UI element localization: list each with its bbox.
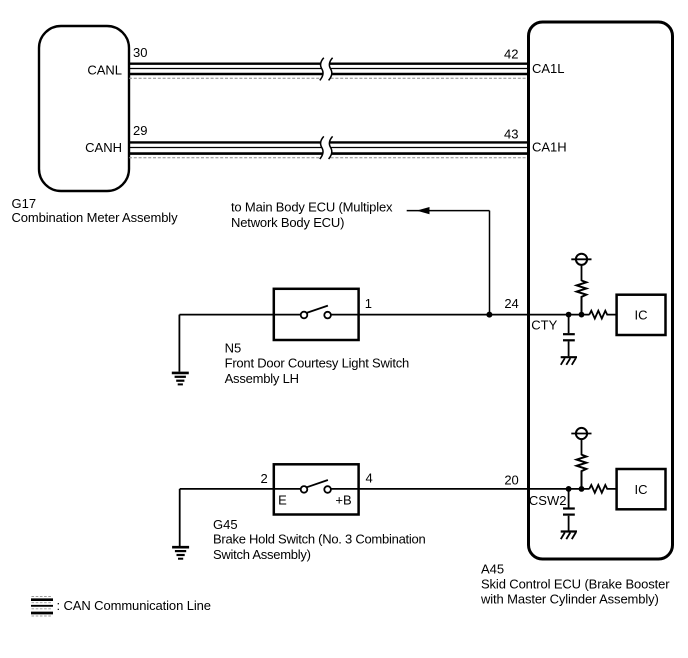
svg-text:42: 42 bbox=[504, 47, 518, 62]
label G17 Combination Meter Assembly bbox=[12, 196, 179, 225]
svg-text:CANL: CANL bbox=[87, 63, 122, 78]
switch G45 contacts and blade bbox=[301, 480, 331, 493]
series resistor CSW2 to IC bbox=[589, 485, 616, 493]
svg-text:E: E bbox=[278, 493, 287, 508]
pull-up resistor CSW2 bbox=[577, 455, 587, 489]
svg-text:IC: IC bbox=[635, 308, 648, 323]
filter capacitor CTY bbox=[563, 315, 575, 357]
svg-text:Assembly LH: Assembly LH bbox=[225, 371, 299, 386]
svg-text:: CAN Communication Line: : CAN Communication Line bbox=[57, 598, 211, 613]
junction dot CTY capacitor branch bbox=[566, 312, 572, 318]
svg-text:N5: N5 bbox=[225, 341, 242, 356]
svg-text:Brake Hold Switch (No. 3 Combi: Brake Hold Switch (No. 3 Combination bbox=[213, 532, 425, 547]
legend CAN communication line symbol bbox=[31, 597, 53, 617]
svg-text:24: 24 bbox=[504, 296, 518, 311]
earth ground for G45 bbox=[172, 489, 189, 559]
connector box G17 Combination Meter Assembly bbox=[39, 26, 129, 191]
svg-text:43: 43 bbox=[504, 126, 518, 141]
series resistor CTY to IC bbox=[589, 311, 616, 319]
switch G45 box bbox=[274, 464, 359, 514]
junction dot CSW2 capacitor branch bbox=[566, 486, 572, 492]
svg-text:G45: G45 bbox=[213, 517, 238, 532]
pull-up resistor CTY bbox=[577, 281, 587, 315]
wire from ground through G45 to A45 pin 20 bbox=[180, 488, 590, 490]
svg-text:1: 1 bbox=[365, 296, 372, 311]
wire from ground through N5 to A45 pin 24 bbox=[179, 314, 589, 316]
svg-text:Network Body ECU): Network Body ECU) bbox=[231, 215, 344, 230]
svg-text:A45: A45 bbox=[481, 562, 504, 577]
svg-text:G17: G17 bbox=[12, 196, 37, 211]
svg-text:CA1L: CA1L bbox=[532, 61, 565, 76]
wire break symbol on CANH line bbox=[320, 136, 334, 159]
svg-text:CSW2: CSW2 bbox=[529, 493, 567, 508]
svg-text:Skid Control ECU (Brake Booste: Skid Control ECU (Brake Booster bbox=[481, 576, 670, 591]
svg-text:20: 20 bbox=[504, 473, 518, 488]
svg-text:4: 4 bbox=[366, 470, 373, 485]
svg-text:to Main Body ECU (Multiplex: to Main Body ECU (Multiplex bbox=[231, 200, 393, 215]
svg-text:CANH: CANH bbox=[85, 140, 122, 155]
CAN bus wire CANL: G17 pin 30 to A45 pin 42 bbox=[129, 64, 527, 79]
wire break symbol on CANL line bbox=[320, 57, 334, 80]
label A45 Skid Control ECU bbox=[480, 562, 670, 607]
junction dot CTY resistor branch bbox=[579, 312, 585, 318]
svg-text:30: 30 bbox=[133, 45, 147, 60]
svg-text:29: 29 bbox=[133, 123, 147, 138]
label G45 Brake Hold Switch bbox=[213, 517, 425, 562]
CAN bus wire CANH: G17 pin 29 to A45 pin 43 bbox=[129, 142, 527, 157]
junction dot CSW2 resistor branch bbox=[579, 486, 585, 492]
svg-text:with Master Cylinder Assembly): with Master Cylinder Assembly) bbox=[480, 591, 659, 606]
ECU box A45 Skid Control ECU bbox=[529, 22, 673, 559]
svg-text:CA1H: CA1H bbox=[532, 139, 567, 154]
svg-text:Combination Meter Assembly: Combination Meter Assembly bbox=[12, 210, 179, 225]
switch N5 box bbox=[274, 289, 359, 340]
pull-up supply terminal CTY bbox=[571, 254, 591, 281]
svg-text:Front Door Courtesy Light Swit: Front Door Courtesy Light Switch bbox=[225, 356, 409, 371]
earth ground for N5 bbox=[172, 315, 189, 385]
IC box (CTY input) bbox=[617, 295, 666, 335]
pull-up supply terminal CSW2 bbox=[571, 428, 591, 455]
switch N5 contacts and blade bbox=[301, 306, 331, 319]
svg-text:CTY: CTY bbox=[531, 317, 557, 332]
svg-text:2: 2 bbox=[260, 471, 267, 486]
chassis ground CTY bbox=[561, 357, 577, 365]
junction node at pin 24 wire and Main-Body-ECU branch bbox=[486, 312, 492, 318]
wire to Main Body ECU with arrowhead bbox=[407, 207, 490, 315]
filter capacitor CSW2 bbox=[563, 489, 575, 531]
svg-text:Switch Assembly): Switch Assembly) bbox=[213, 547, 311, 562]
chassis ground CSW2 bbox=[561, 532, 577, 540]
svg-text:+B: +B bbox=[335, 493, 351, 508]
annotation to Main Body ECU bbox=[231, 200, 393, 231]
svg-text:IC: IC bbox=[635, 482, 648, 497]
label N5 Front Door Courtesy Light Switch Assembly LH bbox=[225, 341, 409, 386]
IC box (CSW2 input) bbox=[617, 469, 666, 509]
